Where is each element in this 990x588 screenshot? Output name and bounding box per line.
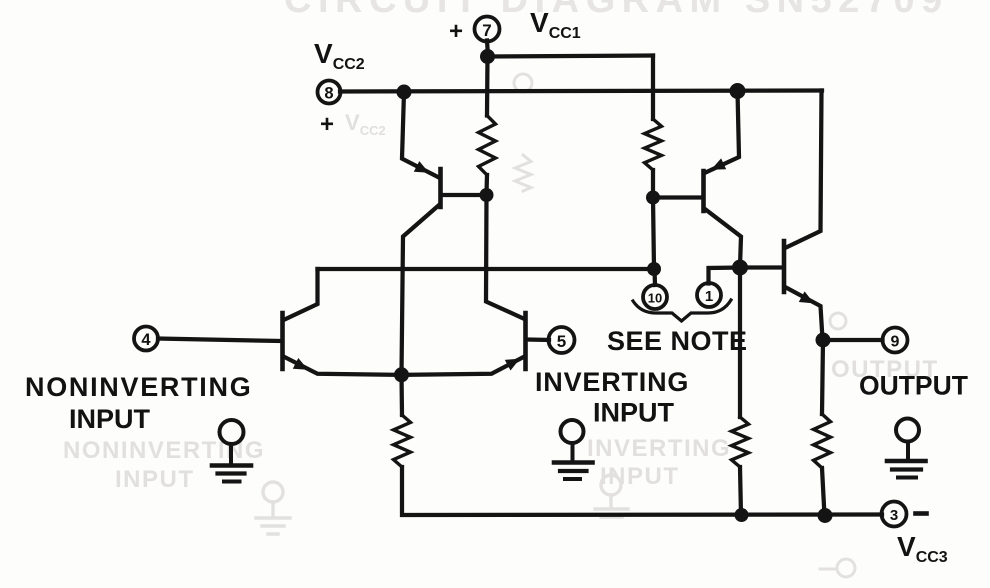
long collector rail left part [318,267,655,271]
ghost resistor [515,155,531,191]
svg-text:NONINVERTING: NONINVERTING [25,372,252,402]
pin 7 [475,17,500,42]
node dot Q2 collector / base rail [732,260,748,276]
svg-text:INPUT: INPUT [593,398,675,428]
transistor Q3 left input NPN [283,269,401,375]
resistor R5 [814,414,831,468]
resistor R1 [479,116,496,176]
wire R1 bottom to node [484,175,489,194]
wire corner down to resistor R2 [651,56,655,120]
svg-text:8: 8 [324,85,333,103]
svg-text:9: 9 [891,334,900,351]
wire R2 node down to pin10 node [653,198,654,270]
svg-text:VCC3: VCC3 [897,531,948,566]
svg-text:+: + [320,111,334,138]
node dot rail at Q1 emitter [397,85,412,100]
stub to pin 10 [652,269,657,285]
ghost ground inverting [595,475,628,517]
ghost pin 3 and wire bottom right [820,559,855,577]
ground symbol output [887,419,926,478]
transistor Q1 PNP current source [402,92,480,374]
svg-text:+: + [449,18,463,45]
brace under pins 10 and 1 [633,300,731,321]
svg-text:INPUT: INPUT [115,466,195,493]
minus sign at pin 3 [916,511,927,516]
svg-text:3: 3 [890,507,898,524]
wire pin9 node down to R5 [822,340,823,414]
pin 9 [883,328,908,353]
ghost pin 9 circle [830,313,846,329]
wire top rail from pin 8 to right corner [340,91,822,92]
svg-text:CIRCUIT DIAGRAM SN52709: CIRCUIT DIAGRAM SN52709 [284,0,949,21]
svg-text:INPUT: INPUT [69,404,151,434]
wire R4 to bottom rail [740,467,741,515]
transistor Q4 right input [403,195,526,375]
svg-text:NONINVERTING: NONINVERTING [63,437,265,464]
svg-text:INVERTING: INVERTING [535,367,689,397]
wire common emitter node down to R3 [399,375,404,415]
ground symbol noninverting [212,420,251,482]
resistor R2 [645,119,662,170]
wire pin 5 to Q4 base [528,337,550,342]
ghost ground noninverting [256,482,290,534]
resistor R3 [394,415,411,467]
svg-text:INVERTING: INVERTING [587,435,731,462]
node dot bottom rail R4 [735,508,749,522]
svg-text:OUTPUT: OUTPUT [859,371,968,401]
wire pin7 node to right corner [488,56,654,57]
node dot R2 bottom [646,191,660,205]
ground symbol inverting [554,420,593,479]
pin 1 [697,283,721,307]
wire R5 to bottom rail [822,468,825,516]
wire R2 bottom to node [651,170,655,196]
wire R3 to bottom rail corner [402,467,882,515]
node dot below pin 7 [480,49,495,64]
wire node down to resistor R4 [738,268,742,418]
node dot above pin 10 [647,262,661,276]
resistor R4 [732,417,749,467]
svg-text:10: 10 [648,291,662,306]
node dot common emitters [394,367,409,382]
wire pin1 up and right to node [709,268,741,284]
node dot bottom rail R5 [818,508,833,523]
wire node to pin 9 [823,338,883,342]
transistor Q2 PNP current source [660,91,741,267]
svg-text:VCC2: VCC2 [345,110,386,138]
wire pin 4 to Q3 base [158,339,280,342]
svg-text:VCC2: VCC2 [314,38,365,73]
pin 8 [318,81,341,104]
svg-text:4: 4 [141,331,151,349]
node dot rail at Q2 emitter [730,83,746,99]
ghost pin circle near Vcc1 [514,74,532,92]
svg-text:SEE NOTE: SEE NOTE [607,326,748,356]
pin 10 [643,285,667,309]
transistor Q5 output [784,91,823,340]
wire pin7 stub [487,41,488,57]
wire from pin7 node down to resistor R1 [485,57,490,116]
svg-text:1: 1 [705,288,713,305]
svg-text:7: 7 [482,21,491,40]
node dot R1 bottom [480,188,494,202]
pin 4 [134,327,158,351]
pin 3 [882,502,907,527]
node dot emitter / pin 9 [816,333,831,348]
pin 5 [549,327,575,353]
wire node to Q5 base [740,265,782,269]
svg-text:5: 5 [557,332,566,351]
